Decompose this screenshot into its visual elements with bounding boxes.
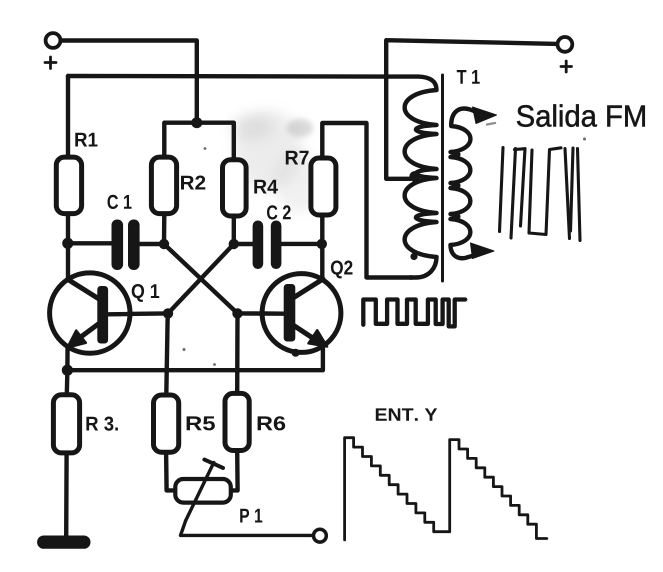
wire R7 bottom to Q2 collector (320, 215, 324, 280)
transformer secondary (451, 109, 479, 259)
waveform FM output (500, 148, 581, 241)
label R1 (75, 133, 97, 147)
resistor R7 (311, 158, 336, 215)
wire C1 left (68, 241, 112, 245)
plus left (45, 57, 56, 69)
label R4 (254, 180, 278, 194)
antenna arrow top (473, 107, 497, 124)
label Salida FM (517, 104, 645, 126)
wire R3 stem (65, 370, 70, 395)
potentiometer P1 (175, 479, 231, 503)
wire C1 right (138, 242, 164, 246)
wire Q1 base (105, 311, 168, 316)
label Q2 (331, 261, 353, 279)
ground (37, 536, 90, 549)
transistor Q1 (50, 273, 130, 353)
node R7/C2 (317, 239, 327, 249)
node R2/C1 (159, 239, 169, 249)
label ENT. Y (376, 408, 437, 420)
node emitter rail (62, 365, 73, 376)
terminal + left (46, 33, 61, 48)
resistor R5 (154, 395, 179, 452)
node top distribution (191, 117, 202, 128)
label T1 (457, 70, 480, 84)
wire top-left supply (61, 41, 197, 119)
wire R1 branch (66, 76, 70, 279)
wire P1 wiper to input terminal (181, 521, 314, 536)
wire R5 to P1 (166, 452, 176, 490)
resistor R4 (223, 160, 247, 216)
node transformer tap (409, 171, 420, 182)
wire Q2 base (238, 311, 287, 316)
wire R3 to ground (64, 453, 69, 537)
wire R6 stem (235, 313, 240, 393)
wire C2 left (234, 242, 253, 246)
resistor R3 (53, 395, 79, 453)
wire R2/R4 top distribution (164, 123, 234, 160)
wire Q1 collector-emitter column (65, 279, 70, 370)
label R3 (86, 417, 118, 431)
wire cross coupling 1 (164, 244, 238, 313)
wire left rail + transformer primary T1 (68, 76, 437, 278)
label P1 (240, 509, 262, 523)
terminal input (314, 529, 327, 542)
wire cross coupling 2 (168, 244, 234, 313)
wire emitter rail (67, 347, 323, 370)
node R1/C1 (62, 238, 73, 249)
transformer core (441, 75, 444, 281)
node R4/C2 (229, 239, 239, 249)
resistor R6 (225, 393, 249, 450)
antenna arrow bottom (471, 243, 495, 259)
transistor Q2 (262, 274, 341, 353)
resistor R1 (56, 157, 81, 214)
wire top-right supply (386, 40, 557, 179)
waveform staircase ENT.Y (345, 438, 547, 540)
waveform square wave (363, 300, 465, 327)
wire R4 stem (232, 216, 236, 244)
capacitor C2 (253, 221, 282, 270)
label Q1 (132, 284, 160, 302)
label C2 (267, 205, 291, 219)
node Q2 base (232, 308, 242, 318)
wire R6 to P1 (231, 451, 238, 491)
wire R7 to primary bottom (322, 123, 412, 278)
resistor R2 (151, 157, 176, 214)
wire R5 stem (166, 313, 167, 395)
node Q1 base (163, 308, 173, 318)
label R6 (258, 416, 286, 430)
terminal + right (558, 37, 573, 52)
wire C2 right (281, 242, 322, 246)
label R5 (187, 416, 215, 430)
label R2 (181, 176, 205, 190)
wire R2 stem (162, 214, 167, 244)
label C1 (108, 195, 132, 209)
label R7 (286, 151, 309, 165)
plus right (561, 61, 572, 72)
capacitor C1 (112, 220, 140, 271)
